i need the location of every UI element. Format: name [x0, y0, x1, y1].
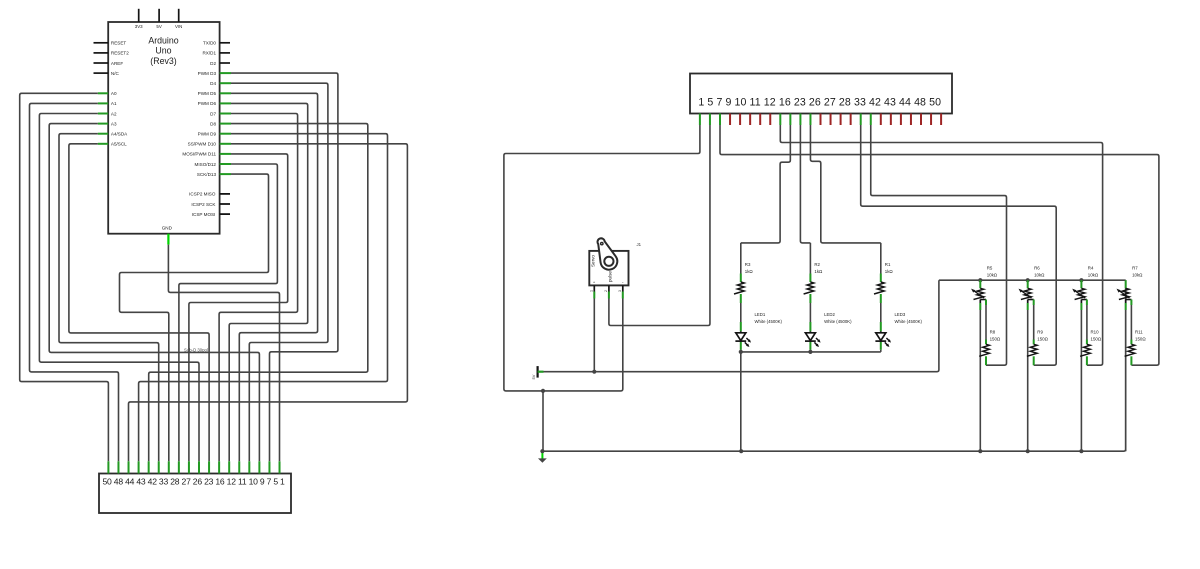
- servo pin 3 stub: [618, 285, 623, 298]
- svg-text:3: 3: [618, 290, 622, 292]
- Arduino power pin 3V3: [135, 9, 143, 29]
- Arduino pin A0: [98, 91, 117, 96]
- J3 pin stub 20: [890, 114, 892, 126]
- wire J3 pin7 to R11 sense: [720, 125, 1159, 365]
- J2 pin stub 15: [248, 461, 250, 473]
- svg-text:LED1: LED1: [755, 312, 766, 317]
- J2 pin stub 7: [168, 461, 170, 473]
- J3 pin stub 21: [900, 114, 902, 126]
- junction R6 ground: [1026, 449, 1030, 453]
- servo J1 horn: [598, 238, 618, 269]
- wire D11 to connector: [189, 154, 288, 461]
- junction R7 ground: [0, 0, 1, 1]
- svg-text:150Ω: 150Ω: [1135, 336, 1146, 341]
- Arduino pin A5/SCL: [98, 142, 127, 147]
- svg-text:D4: D4: [210, 81, 216, 86]
- J3 pin stub 19: [880, 114, 882, 126]
- svg-text:R2: R2: [814, 262, 820, 267]
- wire A0 to connector: [20, 93, 109, 461]
- svg-text:J1: J1: [637, 242, 642, 247]
- J3 pin stub 24: [930, 114, 932, 126]
- J2 pin stub 10: [198, 461, 200, 473]
- wire A3 to connector: [49, 124, 259, 462]
- servo pin 1 stub: [590, 285, 595, 298]
- svg-text:N/C: N/C: [111, 71, 120, 76]
- svg-text:Sub-D 30pol: Sub-D 30pol: [184, 348, 208, 353]
- J3 pin stub 9: [779, 114, 781, 126]
- svg-text:R4: R4: [1088, 266, 1094, 271]
- label Sub-D 30pol: [184, 348, 208, 353]
- J3 pin stub 6: [749, 114, 751, 126]
- wire R4 to ground bus: [1080, 300, 1082, 452]
- junction LED2 bus: [808, 350, 812, 354]
- svg-text:(Rev3): (Rev3): [150, 56, 176, 66]
- wire D5 to connector: [231, 93, 318, 461]
- svg-text:R7: R7: [1132, 266, 1138, 271]
- svg-text:150Ω: 150Ω: [1091, 336, 1102, 341]
- Arduino pin A2: [98, 111, 117, 116]
- junction R5 ground: [978, 449, 982, 453]
- Arduino Uno U1 body: [108, 22, 219, 234]
- J3 pin stub 18: [870, 114, 872, 126]
- Arduino pin SCK/D13: [197, 172, 231, 177]
- J2 pin stub 8: [178, 461, 180, 473]
- junction node ground drop: [541, 389, 545, 451]
- Arduino pin SS/PWM D10: [188, 142, 231, 147]
- Arduino pin A4/SDA: [98, 132, 128, 137]
- J2 pin stub 2: [117, 461, 119, 473]
- resistor R11 150: [1125, 300, 1147, 366]
- svg-text:10kΩ: 10kΩ: [1034, 273, 1045, 278]
- J2 pin stub 9: [188, 461, 190, 473]
- svg-text:R1: R1: [885, 262, 891, 267]
- wire R6 to ground bus: [1027, 300, 1029, 452]
- svg-text:3V3: 3V3: [135, 24, 143, 29]
- Arduino pin PWM D5: [198, 91, 231, 96]
- J2 pin stub 14: [238, 461, 240, 473]
- resistor R2 1k: [804, 243, 823, 303]
- svg-text:White (4500K): White (4500K): [895, 319, 923, 324]
- wire J3 pin27 to R1: [810, 125, 880, 243]
- J3 pin stub 16: [850, 114, 852, 126]
- J3 pin stub 5: [739, 114, 741, 126]
- Arduino power pin VIN: [175, 9, 182, 29]
- photoresistor R5 10k: [971, 266, 998, 300]
- Arduino pin AREF: [94, 61, 124, 66]
- Arduino pin PWM D6: [198, 101, 231, 106]
- wire A1 to connector: [30, 103, 119, 461]
- svg-text:5V: 5V: [156, 24, 161, 29]
- svg-text:1kΩ: 1kΩ: [745, 269, 754, 274]
- svg-text:R8: R8: [990, 329, 996, 334]
- junction ground node: [540, 449, 544, 453]
- svg-text:50 48 44 43 42 33 28 27 26 23: 50 48 44 43 42 33 28 27 26 23 16 12 11 1…: [103, 477, 286, 487]
- resistor R8 150: [979, 300, 1001, 366]
- svg-text:R5: R5: [987, 266, 993, 271]
- J2 pin stub 13: [228, 461, 230, 473]
- svg-text:AREF: AREF: [111, 61, 123, 66]
- Arduino pin D2: [210, 61, 230, 66]
- svg-text:D2: D2: [210, 61, 216, 66]
- svg-text:ICSP MOSI: ICSP MOSI: [192, 212, 216, 217]
- LED LED1 white: [735, 303, 782, 352]
- J3 pin stub 25: [940, 114, 942, 126]
- Arduino pin A1: [98, 101, 117, 106]
- svg-text:White (4500K): White (4500K): [755, 319, 783, 324]
- wire D10 to connector: [129, 144, 408, 462]
- wire LED cathode bus: [741, 351, 881, 353]
- J2 pin stub 18: [279, 461, 281, 473]
- svg-text:A5/SCL: A5/SCL: [111, 142, 127, 147]
- wire servo plus to 5V: [593, 299, 595, 372]
- J3 pin stub 7: [759, 114, 761, 126]
- Arduino pin MISO/D12: [195, 162, 231, 167]
- resistor R1 1k: [874, 243, 893, 303]
- power +5V symbol: [531, 366, 544, 379]
- svg-text:White (4500K): White (4500K): [824, 319, 852, 324]
- Arduino pin A3: [98, 121, 117, 126]
- connector J2 (Sub-D) body: [99, 474, 291, 514]
- J3 pin stub 13: [820, 114, 822, 126]
- Arduino pin RESET2: [94, 51, 130, 56]
- junction sensor bus node R5: [978, 278, 982, 282]
- svg-text:R10: R10: [1091, 329, 1100, 334]
- svg-text:PWM D6: PWM D6: [198, 101, 217, 106]
- wire D13 to connector pin 28: [120, 174, 269, 461]
- wire A4 to connector: [59, 134, 159, 462]
- svg-text:ICSP2 SCK: ICSP2 SCK: [191, 202, 216, 207]
- svg-text:GND: GND: [162, 226, 173, 231]
- J3 pin stub 10: [789, 114, 791, 126]
- wire J3 pin33 to R9 sense: [861, 125, 1056, 365]
- svg-text:150Ω: 150Ω: [1037, 336, 1048, 341]
- svg-text:SCK/D13: SCK/D13: [197, 172, 217, 177]
- svg-text:RX/D1: RX/D1: [202, 51, 216, 56]
- Arduino pin RX/D1: [202, 51, 230, 56]
- wire J3 pin23 to R3: [741, 125, 791, 243]
- svg-text:PWM D9: PWM D9: [198, 132, 217, 137]
- svg-text:TX/D0: TX/D0: [203, 41, 216, 46]
- junction R4 ground: [1079, 449, 1083, 453]
- wire J3 pin26 to R2: [800, 125, 810, 243]
- svg-text:1kΩ: 1kΩ: [885, 269, 894, 274]
- Arduino pin PWM D9: [198, 132, 231, 137]
- wire J3 pin42 to R8 sense: [871, 125, 1007, 365]
- J3 pin stub 1: [699, 114, 701, 126]
- svg-text:VIN: VIN: [175, 24, 182, 29]
- svg-text:150Ω: 150Ω: [990, 336, 1001, 341]
- wire 5V rail: [544, 280, 939, 372]
- J2 pin stub 5: [148, 461, 150, 473]
- svg-text:RESET2: RESET2: [111, 51, 129, 56]
- resistor R3 1k: [734, 243, 753, 303]
- Arduino pin ICSP2 MISO: [189, 192, 230, 197]
- J2 pin stub 3: [128, 461, 130, 473]
- wire GND to connector pin 1: [168, 245, 279, 462]
- wire sensor 5V bus: [939, 279, 1126, 281]
- Arduino pin RESET: [94, 41, 127, 46]
- svg-text:PWM D5: PWM D5: [198, 91, 217, 96]
- svg-text:R9: R9: [1037, 329, 1043, 334]
- Arduino power pin 5V: [156, 9, 161, 29]
- svg-text:Servo: Servo: [591, 255, 596, 267]
- Arduino pin N/C: [94, 71, 120, 76]
- LED LED3 white: [875, 303, 922, 352]
- wire A2 to connector: [39, 114, 199, 462]
- svg-text:R11: R11: [1135, 329, 1143, 334]
- J3 pin stub 17: [860, 114, 862, 126]
- Arduino pin ICSP2 SCK: [191, 202, 230, 207]
- svg-text:Uno: Uno: [155, 46, 171, 56]
- connector J3 (Sub-D) body: [690, 74, 952, 114]
- svg-text:1 5 7 9 10 11 12 16 23 26 27 2: 1 5 7 9 10 11 12 16 23 26 27 28 33 42 43…: [698, 96, 941, 108]
- Arduino pin D8: [210, 121, 231, 126]
- svg-text:2: 2: [604, 290, 608, 292]
- svg-text:R3: R3: [745, 262, 751, 267]
- svg-text:D7: D7: [210, 111, 216, 116]
- svg-text:LED3: LED3: [895, 312, 906, 317]
- wire D12 to connector: [179, 164, 278, 461]
- svg-text:A4/SDA: A4/SDA: [111, 132, 128, 137]
- J2 pin stub 4: [138, 461, 140, 473]
- svg-text:MISO/D12: MISO/D12: [195, 162, 217, 167]
- junction sensor bus node R6: [1026, 278, 1030, 282]
- svg-text:10kΩ: 10kΩ: [1088, 273, 1099, 278]
- wire ground bus: [542, 280, 1125, 451]
- junction sensor bus node R4: [1079, 278, 1083, 282]
- J2 pin stub 12: [218, 461, 220, 473]
- J3 pin stub 14: [830, 114, 832, 126]
- svg-text:A0: A0: [111, 91, 117, 96]
- wire R5 to ground bus: [979, 300, 981, 452]
- junction LED1 bus: [739, 350, 743, 451]
- svg-text:10kΩ: 10kΩ: [1132, 273, 1143, 278]
- J2 pin stub 1: [107, 461, 109, 473]
- J3 pin stub 23: [920, 114, 922, 126]
- ground symbol: [538, 451, 547, 463]
- Arduino pin PWM D3: [198, 71, 231, 76]
- wire A5 to connector: [69, 144, 209, 462]
- servo pin 2 stub: [604, 285, 609, 298]
- svg-text:A2: A2: [111, 111, 117, 116]
- J3 pin stub 4: [729, 114, 731, 126]
- J3 pin stub 22: [910, 114, 912, 126]
- photoresistor R6 10k: [1019, 266, 1046, 300]
- Arduino pin D4: [210, 81, 231, 86]
- svg-text:MOSI/PWM D11: MOSI/PWM D11: [182, 152, 216, 157]
- LED LED2 white: [805, 303, 852, 352]
- Arduino pin TX/D0: [203, 41, 230, 46]
- svg-text:A3: A3: [111, 121, 117, 126]
- svg-text:D8: D8: [210, 121, 216, 126]
- Arduino pin GND: [162, 226, 173, 245]
- J3 pin stub 3: [719, 114, 721, 126]
- svg-text:ICSP2 MISO: ICSP2 MISO: [189, 192, 216, 197]
- wire J3 pin5 to servo pulse: [609, 125, 710, 326]
- wire J3 pin16 to R10 sense: [780, 125, 1102, 365]
- Arduino pin MOSI/PWM D11: [182, 152, 231, 157]
- wire R7 to ground bus: [1125, 300, 1127, 452]
- svg-text:1: 1: [590, 290, 594, 292]
- wire D8 to connector: [149, 124, 368, 462]
- J3 pin stub 2: [709, 114, 711, 126]
- Arduino pin ICSP MOSI: [192, 212, 230, 217]
- svg-text:Arduino: Arduino: [148, 36, 178, 46]
- resistor R9 150: [1027, 300, 1049, 366]
- svg-text:RESET: RESET: [111, 41, 127, 46]
- wire D7 to connector: [219, 114, 298, 462]
- svg-text:10kΩ: 10kΩ: [987, 273, 998, 278]
- label J1: [637, 242, 642, 247]
- photoresistor R4 10k: [1072, 266, 1099, 300]
- J3 pin stub 11: [799, 114, 801, 126]
- svg-text:pulse: pulse: [607, 271, 612, 282]
- wire J3 pin1 ground loop to servo: [504, 125, 700, 391]
- svg-text:1kΩ: 1kΩ: [814, 269, 823, 274]
- wire D3 to connector: [231, 73, 338, 461]
- svg-text:LED2: LED2: [824, 312, 835, 317]
- wire D4 to connector: [231, 83, 328, 461]
- J2 pin stub 6: [158, 461, 160, 473]
- svg-text:A1: A1: [111, 101, 117, 106]
- J3 pin stub 8: [769, 114, 771, 126]
- resistor R10 150: [1080, 300, 1102, 366]
- svg-text:5V: 5V: [531, 374, 536, 379]
- photoresistor R7 10k: [1117, 266, 1144, 300]
- J2 pin stub 16: [258, 461, 260, 473]
- junction servo plus on 5V rail: [592, 370, 596, 374]
- wire D6 to connector: [229, 103, 308, 461]
- servo J1 body: [589, 251, 628, 286]
- wire D9 to connector: [139, 134, 388, 462]
- J2 pin stub 17: [268, 461, 270, 473]
- J2 pin stub 11: [208, 461, 210, 473]
- svg-text:R6: R6: [1034, 266, 1040, 271]
- J3 pin stub 12: [809, 114, 811, 126]
- Arduino pin D7: [210, 111, 231, 116]
- svg-text:PWM D3: PWM D3: [198, 71, 217, 76]
- junction LED bus ground: [739, 449, 743, 453]
- svg-text:SS/PWM D10: SS/PWM D10: [188, 142, 217, 147]
- J3 pin stub 15: [840, 114, 842, 126]
